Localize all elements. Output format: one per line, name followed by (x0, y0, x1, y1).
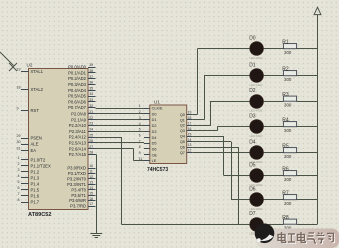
svg-text:36: 36 (89, 81, 93, 85)
wire net P2.5 to U1 pin 7 (96, 142, 145, 144)
svg-text:13: 13 (89, 180, 93, 184)
U2 pin 24 P2.3/A11 (69, 127, 95, 133)
svg-text:34: 34 (89, 92, 93, 96)
U2 pin 13 P3.3/INT1 (67, 180, 95, 186)
svg-text:P2.2/A10: P2.2/A10 (69, 123, 87, 128)
svg-text:D3: D3 (249, 113, 256, 119)
wire LED D3 to resistor R4 (264, 126, 284, 128)
svg-text:21: 21 (89, 110, 93, 114)
svg-text:Q4: Q4 (180, 135, 185, 139)
svg-text:P3.4/T0: P3.4/T0 (71, 187, 86, 192)
svg-text:R8: R8 (282, 215, 289, 221)
wire net MCU to U1 input 2 (96, 113, 145, 115)
svg-text:ALE: ALE (31, 142, 39, 147)
svg-text:U2: U2 (27, 63, 33, 68)
svg-text:EA: EA (31, 148, 37, 153)
svg-text:LED-RED: LED-RED (250, 134, 264, 138)
wire resistor R5 to VCC rail (297, 152, 318, 154)
svg-text:22: 22 (89, 116, 93, 120)
svg-text:R6: R6 (282, 167, 289, 173)
U2 pin 15 P3.5/T1 (71, 191, 95, 197)
svg-text:R2: R2 (282, 67, 289, 73)
svg-text:Q2: Q2 (180, 124, 185, 128)
U2 value label AT89C52 (28, 212, 52, 218)
U2 pin 29 PSEN (17, 134, 42, 140)
svg-text:D5: D5 (249, 162, 256, 168)
svg-text:P1.2: P1.2 (31, 169, 40, 174)
svg-text:D7: D7 (249, 211, 256, 217)
wire resistor R3 to VCC rail (297, 101, 318, 103)
svg-text:P1.1/T2EX: P1.1/T2EX (31, 163, 51, 168)
svg-text:R5: R5 (282, 144, 289, 150)
svg-text:Q3: Q3 (180, 129, 185, 133)
LED D7 (249, 211, 263, 236)
svg-text:19: 19 (188, 111, 192, 115)
LED D3 (249, 113, 263, 138)
svg-text:39: 39 (89, 63, 93, 67)
svg-text:P1.7: P1.7 (31, 200, 40, 205)
svg-text:R7: R7 (282, 191, 289, 197)
svg-text:P2.3/A11: P2.3/A11 (69, 129, 87, 134)
svg-text:15: 15 (89, 191, 93, 195)
wire net U1 output to LED row (corner x=238.0) (192, 147, 250, 225)
svg-text:12: 12 (188, 149, 192, 153)
U2 pin 8 P1.7 (18, 198, 40, 204)
svg-text:D6: D6 (152, 147, 157, 151)
wire net U1 output to LED row (corner x=231.0) (192, 142, 250, 200)
svg-text:P2.4/A12: P2.4/A12 (69, 135, 87, 140)
wire net MCU to U1 input 4 (96, 125, 145, 127)
IC U2 AT89C52 body (29, 69, 89, 210)
svg-text:D3: D3 (152, 130, 157, 134)
svg-text:300: 300 (284, 201, 292, 206)
svg-text:19: 19 (17, 68, 21, 72)
svg-text:Q5: Q5 (180, 140, 185, 144)
U2 pin 36 P0.3/AD3 (68, 81, 95, 87)
svg-text:LED-RED: LED-RED (250, 109, 264, 113)
svg-text:3: 3 (18, 168, 20, 172)
svg-text:D0: D0 (249, 35, 256, 41)
wire net MCU to U1 input 3 (96, 119, 145, 121)
svg-text:D6: D6 (249, 186, 256, 192)
U2 pin 1 P1.0/T2 (18, 156, 46, 162)
svg-text:P3.0/RXD: P3.0/RXD (67, 166, 86, 171)
svg-text:23: 23 (89, 122, 93, 126)
U1 pin 15 Q4 (180, 132, 192, 138)
svg-text:P3.6/WR: P3.6/WR (69, 198, 86, 203)
svg-text:Q1: Q1 (180, 118, 185, 122)
svg-text:LE: LE (152, 159, 157, 163)
LED D2 (249, 88, 263, 113)
svg-text:4: 4 (18, 174, 20, 178)
U2 pin 30 ALE (17, 140, 39, 146)
U1 value label 74HC573 (147, 167, 168, 173)
U2 pin 10 P3.0/RXD (67, 164, 95, 170)
wire LED D1 to resistor R2 (264, 75, 284, 77)
svg-text:P0.0/AD0: P0.0/AD0 (68, 65, 87, 70)
svg-text:32: 32 (89, 104, 93, 108)
U2 pin 18 XTAL2 (17, 86, 44, 92)
svg-text:18: 18 (188, 116, 192, 120)
svg-text:74HC573: 74HC573 (147, 167, 168, 173)
svg-text:D2: D2 (249, 88, 256, 94)
wire net MCU to U1 input 1 (96, 108, 145, 110)
svg-text:28: 28 (89, 151, 93, 155)
svg-text:P3.2/INT0: P3.2/INT0 (67, 176, 87, 181)
svg-text:Q7: Q7 (180, 151, 185, 155)
svg-text:P0.3/AD3: P0.3/AD3 (68, 82, 87, 87)
U2 pin 21 P2.0/A8 (71, 110, 95, 116)
svg-text:D4: D4 (152, 136, 157, 140)
U1 pin 17 Q2 (180, 121, 192, 127)
svg-text:18: 18 (17, 86, 21, 90)
U2 pin 26 P2.5/A13 (69, 139, 96, 145)
svg-text:25: 25 (89, 133, 93, 137)
U2 pin 9 RST (17, 107, 40, 113)
U2 pin 23 P2.2/A10 (69, 122, 96, 128)
svg-text:P0.5/AD5: P0.5/AD5 (68, 94, 87, 99)
U1 pin 18 Q1 (180, 116, 192, 122)
resistor R1 (282, 40, 296, 56)
svg-text:29: 29 (17, 134, 21, 138)
IC U1 74HC573 body (150, 105, 187, 164)
wire P2.4 to LED row 8 (vertical at x=121.3) (96, 137, 122, 224)
svg-text:P1.3: P1.3 (31, 175, 40, 180)
svg-text:37: 37 (89, 75, 93, 79)
U2 pin 33 P0.6/AD6 (68, 98, 95, 104)
U1 pin 11 LE (139, 157, 157, 163)
svg-text:12: 12 (89, 175, 93, 179)
wire resistor R7 to VCC rail (297, 199, 318, 201)
U2 pin 37 P0.2/AD2 (68, 75, 95, 81)
svg-text:300: 300 (284, 177, 292, 182)
svg-text:P0.6/AD6: P0.6/AD6 (68, 99, 87, 104)
svg-text:31: 31 (17, 147, 21, 151)
svg-text:6: 6 (139, 133, 141, 137)
svg-text:XTAL1: XTAL1 (31, 69, 44, 74)
svg-text:AT89C52: AT89C52 (28, 212, 52, 218)
wire LED D4 to resistor R5 (264, 152, 284, 154)
U1 pin 4 D2 (139, 122, 157, 128)
wire LED D6 to resistor R7 (264, 199, 284, 201)
wire net U1 output to LED row (corner x=223.8) (192, 136, 250, 175)
svg-text:9: 9 (17, 107, 19, 111)
svg-text:1: 1 (139, 104, 141, 108)
U2 pin 19 XTAL1 (17, 68, 44, 74)
crystal X1 (partially off-screen) (0, 52, 17, 71)
VCC power arrow symbol (314, 7, 321, 14)
wire net U1 output to LED row (corner x=197.6) (192, 49, 250, 115)
VCC rail wire (317, 15, 319, 225)
svg-text:27: 27 (89, 145, 93, 149)
U2 pin 16 P3.6/WR (69, 197, 95, 203)
wire net U1 output to LED row (corner x=204.0) (192, 76, 250, 120)
svg-text:P2.6/A14: P2.6/A14 (69, 146, 87, 151)
LED D6 (249, 186, 263, 211)
svg-text:P0.7/AD7: P0.7/AD7 (68, 105, 87, 110)
svg-text:P0.1/AD1: P0.1/AD1 (68, 70, 87, 75)
svg-text:33: 33 (89, 98, 93, 102)
U1 pin 6 D4 (139, 133, 157, 139)
U2 pin 2 P1.1/T2EX (18, 162, 51, 168)
wire LED D5 to resistor R6 (264, 175, 284, 177)
svg-text:9: 9 (139, 151, 141, 155)
svg-text:Q0: Q0 (180, 113, 185, 117)
svg-text:14: 14 (188, 138, 192, 142)
svg-text:P3.1/TXD: P3.1/TXD (68, 171, 86, 176)
U1 pin 12 Q7 (180, 149, 192, 155)
watermark text 电工电气学习 (278, 232, 334, 244)
ground symbol (90, 234, 102, 238)
U1 pin 1 CLK/E (139, 104, 163, 110)
U2 pin 3 P1.2 (18, 168, 40, 174)
svg-text:10: 10 (89, 164, 93, 168)
svg-text:LED-RED: LED-RED (250, 56, 264, 60)
U2 pin 5 P1.4 (18, 180, 40, 186)
svg-text:24: 24 (89, 127, 93, 131)
wire LED D2 to resistor R3 (264, 101, 284, 103)
svg-text:P0.4/AD4: P0.4/AD4 (68, 88, 87, 93)
U2 pin 35 P0.4/AD4 (68, 86, 95, 92)
svg-text:LED-RED: LED-RED (250, 83, 264, 87)
wire LED D0 to resistor R1 (264, 48, 284, 50)
svg-text:38: 38 (89, 69, 93, 73)
resistor R5 (282, 144, 296, 160)
U2 pin 25 P2.4/A12 (69, 133, 96, 139)
watermark bar (256, 229, 339, 248)
svg-text:P2.1/A9: P2.1/A9 (71, 117, 87, 122)
svg-text:300: 300 (284, 103, 292, 108)
wire P2.6 to U1 LE pin (96, 149, 145, 161)
svg-text:D2: D2 (152, 124, 157, 128)
svg-text:1: 1 (18, 156, 20, 160)
svg-text:D1: D1 (249, 62, 256, 68)
resistor R3 (282, 92, 296, 108)
svg-text:D1: D1 (152, 118, 157, 122)
U1 pin 19 Q0 (180, 111, 192, 117)
svg-text:13: 13 (188, 143, 192, 147)
svg-text:RST: RST (31, 108, 40, 113)
svg-text:P3.5/T1: P3.5/T1 (71, 193, 86, 198)
U1 pin 2 D0 (139, 110, 157, 116)
LED D0 (249, 35, 263, 60)
svg-text:17: 17 (188, 121, 192, 125)
svg-text:PSEN: PSEN (31, 136, 42, 141)
U1 pin 16 Q3 (180, 127, 192, 133)
U2 pin 27 P2.6/A14 (69, 145, 96, 151)
U2 reference label (27, 63, 33, 68)
U2 pin 34 P0.5/AD5 (68, 92, 95, 98)
svg-text:8: 8 (18, 198, 20, 202)
svg-text:CLK/E: CLK/E (152, 107, 163, 111)
resistor R6 (282, 167, 296, 183)
wire resistor R4 to VCC rail (297, 126, 318, 128)
U2 pin 11 P3.1/TXD (68, 170, 96, 176)
resistor R4 (282, 118, 296, 134)
svg-text:R3: R3 (282, 92, 289, 98)
svg-text:300: 300 (284, 154, 292, 159)
U2 pin 12 P3.2/INT0 (67, 175, 95, 181)
wire resistor R2 to VCC rail (297, 75, 318, 77)
U2 pin 17 P3.7/RD (70, 202, 95, 208)
U1 reference label (154, 100, 160, 105)
U2 pin 7 P1.6 (18, 192, 40, 198)
svg-text:P3.7/RD: P3.7/RD (70, 204, 86, 209)
svg-text:P2.0/A8: P2.0/A8 (71, 111, 87, 116)
U1 pin 13 Q6 (180, 143, 192, 149)
svg-text:P3.3/INT1: P3.3/INT1 (67, 182, 87, 187)
U2 pin 28 P2.7/A15 (69, 151, 96, 157)
U1 pin 7 D5 (139, 139, 157, 145)
wire LED D7 to resistor R8 (264, 224, 284, 226)
watermark logo (255, 224, 275, 244)
svg-text:P2.7/A15: P2.7/A15 (69, 152, 87, 157)
svg-text:6: 6 (18, 186, 20, 190)
U1 pin 8 D6 (139, 145, 157, 151)
resistor R2 (282, 67, 296, 83)
U2 pin 31 EA (17, 147, 37, 153)
svg-text:P1.0/T2: P1.0/T2 (31, 157, 46, 162)
svg-text:300: 300 (284, 128, 292, 133)
U2 pin 4 P1.3 (18, 174, 40, 180)
wire ground net from P2.7 (96, 154, 97, 233)
svg-text:30: 30 (17, 140, 21, 144)
svg-text:35: 35 (89, 86, 93, 90)
wire net U1 output to LED row (corner x=210.9) (192, 101, 250, 126)
LED D4 (249, 139, 263, 164)
svg-text:R4: R4 (282, 118, 289, 124)
svg-text:16: 16 (89, 197, 93, 201)
svg-text:D4: D4 (249, 139, 256, 145)
LED D1 (249, 62, 263, 87)
svg-text:26: 26 (89, 139, 93, 143)
U1 pin 5 D3 (139, 128, 157, 134)
svg-text:2: 2 (18, 162, 20, 166)
svg-text:P1.6: P1.6 (31, 194, 40, 199)
wire resistor R6 to VCC rail (297, 175, 318, 177)
U1 pin 9 OE (139, 151, 158, 157)
U2 pin 14 P3.4/T0 (71, 186, 95, 192)
svg-text:P1.4: P1.4 (31, 182, 40, 187)
wire LED row 8 horizontal (121, 224, 249, 226)
wire net MCU to U1 input 5 (96, 131, 145, 133)
svg-text:Q6: Q6 (180, 146, 185, 150)
svg-text:300: 300 (284, 77, 292, 82)
LED D5 (249, 162, 263, 187)
U2 pin 32 P0.7/AD7 (68, 104, 95, 110)
svg-text:P2.5/A13: P2.5/A13 (69, 140, 87, 145)
svg-text:17: 17 (89, 202, 93, 206)
resistor R7 (282, 191, 296, 207)
svg-text:7: 7 (18, 192, 20, 196)
svg-text:8: 8 (139, 145, 141, 149)
svg-text:15: 15 (188, 132, 192, 136)
svg-text:U1: U1 (154, 100, 160, 105)
svg-text:P0.2/AD2: P0.2/AD2 (68, 76, 87, 81)
wire net U1 output to LED row (corner x=217.3) (192, 127, 250, 131)
svg-text:D0: D0 (152, 112, 157, 116)
U2 pin 39 P0.0/AD0 (68, 63, 95, 69)
svg-text:D5: D5 (152, 142, 157, 146)
svg-text:P1.5: P1.5 (31, 188, 40, 193)
svg-text:14: 14 (89, 186, 93, 190)
U1 pin 3 D1 (139, 116, 157, 122)
svg-text:300: 300 (284, 50, 292, 55)
svg-text:11: 11 (89, 170, 93, 174)
resistor R8 (282, 215, 296, 231)
svg-text:16: 16 (188, 127, 192, 131)
svg-text:OE: OE (152, 153, 158, 157)
wire resistor R8 to VCC rail (297, 224, 318, 226)
svg-text:R1: R1 (282, 40, 289, 46)
svg-text:XTAL2: XTAL2 (31, 87, 44, 92)
svg-text:5: 5 (18, 180, 20, 184)
wire net U1 Q7 straight to LED row 5 (192, 152, 250, 154)
U1 pin 14 Q5 (180, 138, 192, 144)
U2 pin 6 P1.5 (18, 186, 40, 192)
U2 pin 38 P0.1/AD1 (68, 69, 95, 75)
U2 pin 22 P2.1/A9 (71, 116, 95, 122)
wire resistor R1 to VCC rail (297, 48, 318, 50)
